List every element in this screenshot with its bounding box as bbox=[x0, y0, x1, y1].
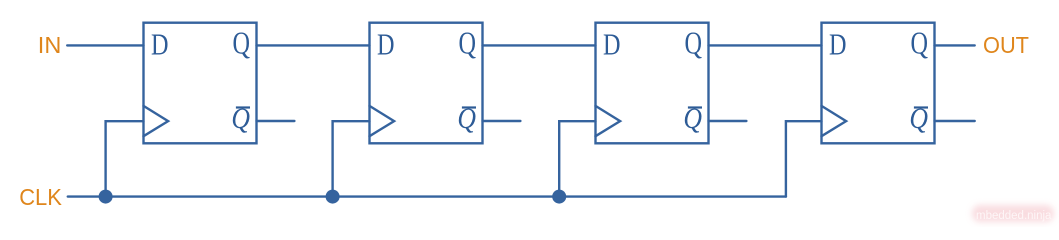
wire Q4 to OUT bbox=[935, 44, 975, 46]
wire Q2 to D of U3 bbox=[483, 44, 596, 46]
wire Q1-bar stub bbox=[257, 120, 295, 122]
svg-text:Q: Q bbox=[459, 25, 477, 61]
junction dot node CLK-1 bbox=[99, 190, 113, 204]
clock edge triangle U2 bbox=[370, 106, 395, 136]
svg-text:D: D bbox=[377, 27, 395, 62]
svg-text:OUT: OUT bbox=[983, 32, 1029, 58]
svg-text:D: D bbox=[603, 27, 621, 62]
clock edge triangle U1 bbox=[144, 106, 169, 136]
flip-flop U2 body bbox=[370, 23, 483, 144]
junction dot node CLK-3 bbox=[552, 190, 566, 204]
wire CLK bus bbox=[68, 195, 786, 197]
flip-flop U4 body bbox=[822, 23, 935, 144]
svg-text:Q: Q bbox=[233, 25, 251, 61]
wire clock riser to U4 bbox=[786, 121, 822, 196]
clock edge triangle U3 bbox=[596, 106, 621, 136]
wire Q2-bar stub bbox=[483, 120, 521, 122]
svg-text:IN: IN bbox=[38, 32, 62, 58]
flip-flop U3 body bbox=[596, 23, 709, 144]
svg-text:mbedded.ninja: mbedded.ninja bbox=[976, 210, 1052, 222]
wire Q1 to D of U2 bbox=[257, 44, 370, 46]
wire Q3 to D of U4 bbox=[709, 44, 822, 46]
wire Q3-bar stub bbox=[709, 120, 747, 122]
wire Q4-bar stub bbox=[935, 120, 975, 122]
svg-text:Q: Q bbox=[685, 25, 703, 61]
svg-text:D: D bbox=[829, 27, 847, 62]
wire clock tap 3 bbox=[559, 121, 595, 196]
wire IN to D of U1 bbox=[67, 44, 143, 46]
clock edge triangle U4 bbox=[822, 106, 847, 136]
svg-text:D: D bbox=[151, 27, 169, 62]
junction dot node CLK-2 bbox=[326, 190, 340, 204]
wire clock tap 1 bbox=[106, 121, 144, 196]
wire clock tap 2 bbox=[333, 121, 370, 196]
svg-text:Q: Q bbox=[911, 25, 929, 61]
svg-text:CLK: CLK bbox=[19, 184, 62, 210]
flip-flop U1 body bbox=[144, 23, 257, 144]
